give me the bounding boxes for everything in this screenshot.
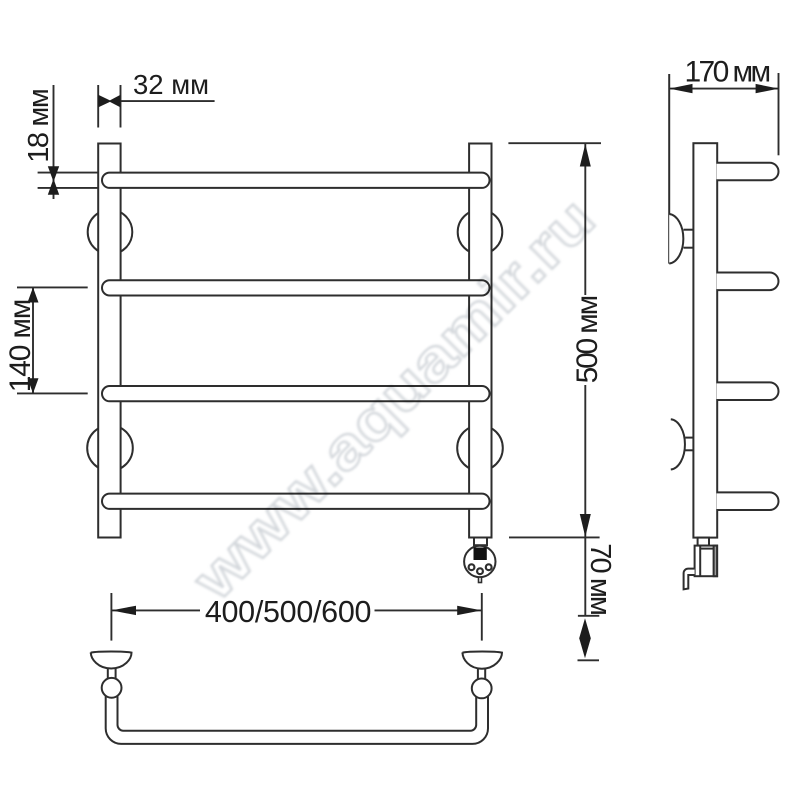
dim 400/500/600 line left segment (111, 609, 200, 611)
arrow 400/500/600 left (111, 606, 136, 615)
wall mount circle top-left (88, 210, 133, 255)
svg-text:18 мм: 18 мм (23, 90, 55, 163)
dim 70mm line (584, 537, 586, 615)
svg-text:500 мм: 500 мм (571, 296, 604, 383)
bottom right ball joint (472, 679, 492, 699)
dim 70mm tick bottom (578, 659, 600, 661)
side bar 4 (717, 492, 779, 510)
heating element pin dot middle (477, 568, 483, 574)
side heater box inner top line (700, 548, 713, 550)
wall bracket dome upper (669, 214, 683, 264)
dim 140mm vertical line (32, 287, 34, 393)
arrow 170mm left (669, 84, 692, 93)
side bar 3 (717, 382, 779, 400)
bottom left neck (107, 668, 109, 678)
wall bracket dome lower (671, 419, 685, 469)
heating element pin dot right (486, 564, 492, 570)
side heater box (695, 546, 718, 577)
arrow 170mm right (756, 84, 779, 93)
dim 170mm extension right (778, 73, 780, 155)
bottom tube outer outline (106, 694, 488, 744)
arrow 500mm up (580, 144, 591, 167)
arrow 32mm right (inward bowtie) (109, 95, 121, 108)
side heater box grey strip (714, 546, 718, 577)
wall line (668, 74, 670, 264)
arrow 140mm down (28, 378, 39, 393)
bottom tube inner outline (118, 695, 477, 731)
wall mount circle bottom-right (457, 425, 503, 471)
dim 32mm extension line right (120, 85, 122, 128)
dim 18mm tick top (38, 172, 98, 174)
heating element bottom pin (479, 577, 482, 582)
right vertical rail (469, 144, 491, 538)
side rail (693, 143, 717, 537)
dim 140mm tick top (17, 286, 88, 288)
dim 70mm tick middle (578, 615, 599, 617)
arrow 32mm left (inward bowtie) (98, 95, 111, 108)
side bar 2 (717, 273, 779, 291)
wall bracket stem upper (684, 229, 694, 231)
dim 140mm tick bottom (17, 392, 88, 394)
svg-text:140 мм: 140 мм (4, 300, 37, 392)
heating element neck (474, 538, 487, 546)
side heater neck (698, 538, 709, 546)
horizontal bar 3 (102, 386, 490, 401)
side heater box inner left line (699, 546, 701, 577)
dim 18mm vertical line (53, 85, 55, 199)
dim 400/500/600 tick left (110, 593, 112, 641)
bottom left ball joint (102, 678, 122, 698)
side heater hook pipe (684, 569, 695, 590)
arrow 18mm bottom (48, 179, 59, 195)
dim 18mm tick bottom (38, 187, 98, 189)
dim 500mm line lower part (584, 385, 586, 537)
svg-text:170 мм: 170 мм (684, 55, 769, 88)
dim 500mm extension top (508, 142, 601, 144)
wall mount circle top-right (458, 210, 503, 255)
side bar 1 (717, 163, 779, 181)
dim 400/500/600 line right segment (375, 609, 482, 611)
dim 500mm line upper part (584, 144, 586, 295)
dim 400/500/600 tick right (481, 593, 483, 641)
svg-text:70 мм: 70 мм (584, 543, 616, 614)
svg-text:32 мм: 32 мм (133, 69, 209, 100)
arrow 140mm up (28, 287, 39, 302)
arrow 500mm down (580, 514, 591, 537)
horizontal bar 2 (102, 280, 490, 295)
heating element black plug (474, 548, 487, 561)
dim 170mm line (669, 88, 779, 90)
arrow 70mm diamond (579, 618, 591, 658)
heating element pin dot left (469, 564, 475, 570)
wall bracket stem lower (685, 437, 693, 439)
dim 500mm extension bottom (509, 536, 600, 538)
horizontal bar 4 (102, 494, 490, 509)
bottom right neck (477, 669, 479, 679)
horizontal bar 1 (102, 173, 490, 188)
dim 32mm extension line left (97, 85, 99, 128)
arrow 18mm top (48, 166, 59, 182)
wall mount circle bottom-left (87, 425, 133, 471)
bottom left wall cup (91, 651, 132, 668)
arrow 400/500/600 right (457, 606, 482, 615)
left vertical rail (98, 144, 120, 538)
bottom right wall cup (463, 651, 503, 668)
dim 32mm leader line (121, 100, 215, 102)
heating element body circle (464, 546, 495, 577)
